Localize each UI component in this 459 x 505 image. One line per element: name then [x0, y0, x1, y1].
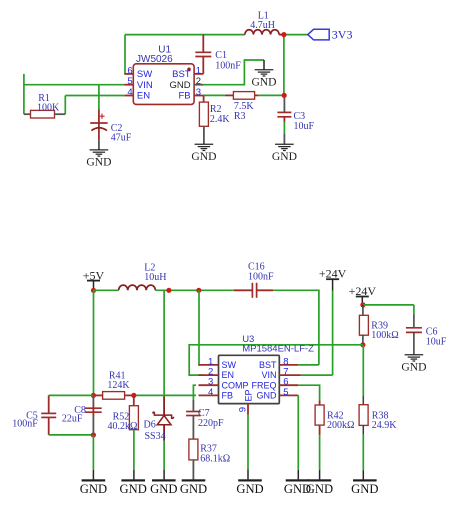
svg-text:40.2kΩ: 40.2kΩ	[108, 421, 138, 432]
svg-text:VIN: VIN	[261, 370, 276, 380]
svg-text:200kΩ: 200kΩ	[327, 420, 354, 431]
svg-text:GND: GND	[284, 482, 311, 496]
svg-text:SW: SW	[137, 69, 152, 80]
svg-text:GND: GND	[80, 482, 107, 496]
svg-text:R3: R3	[234, 111, 246, 122]
svg-text:C1: C1	[215, 50, 227, 61]
svg-text:3V3: 3V3	[332, 28, 353, 42]
svg-text:100nF: 100nF	[12, 418, 38, 429]
svg-text:GND: GND	[236, 482, 263, 496]
svg-text:2: 2	[196, 76, 201, 87]
svg-text:GND: GND	[191, 150, 216, 163]
svg-text:4: 4	[208, 387, 213, 398]
svg-text:EN: EN	[137, 91, 150, 102]
svg-text:9: 9	[237, 407, 248, 412]
svg-text:FB: FB	[222, 391, 234, 401]
svg-text:D6: D6	[144, 420, 156, 431]
svg-text:10uF: 10uF	[426, 337, 447, 348]
svg-text:GND: GND	[86, 156, 111, 169]
svg-text:3: 3	[196, 87, 201, 98]
svg-text:JW5026: JW5026	[136, 54, 173, 65]
svg-text:124K: 124K	[107, 380, 130, 391]
svg-text:GND: GND	[169, 80, 190, 91]
svg-text:10uH: 10uH	[144, 272, 166, 283]
svg-text:GND: GND	[180, 482, 207, 496]
svg-text:SS34: SS34	[145, 431, 166, 442]
svg-text:4.7uH: 4.7uH	[250, 20, 275, 31]
svg-text:6: 6	[127, 65, 132, 76]
svg-text:100nF: 100nF	[248, 271, 274, 282]
svg-text:GND: GND	[272, 150, 297, 163]
svg-text:MP1584EN-LF-Z: MP1584EN-LF-Z	[242, 343, 314, 354]
svg-text:68.1kΩ: 68.1kΩ	[200, 453, 230, 464]
svg-text:GND: GND	[150, 482, 177, 496]
svg-text:47uF: 47uF	[111, 133, 132, 144]
svg-text:BST: BST	[259, 360, 277, 370]
svg-text:EP: EP	[244, 389, 254, 401]
svg-text:SW: SW	[222, 360, 237, 370]
svg-text:10uF: 10uF	[294, 121, 315, 132]
svg-text:GND: GND	[401, 361, 426, 374]
svg-text:220pF: 220pF	[198, 418, 224, 429]
svg-text:100K: 100K	[37, 103, 60, 114]
svg-text:FREQ: FREQ	[251, 380, 276, 390]
svg-text:1: 1	[196, 65, 201, 76]
svg-text:100kΩ: 100kΩ	[371, 330, 398, 341]
svg-text:GND: GND	[120, 482, 147, 496]
svg-text:GND: GND	[257, 391, 278, 401]
svg-text:GND: GND	[251, 76, 276, 89]
svg-text:EN: EN	[222, 370, 235, 380]
svg-text:22uF: 22uF	[62, 414, 83, 425]
svg-text:100nF: 100nF	[215, 60, 241, 71]
svg-text:4: 4	[127, 87, 132, 98]
svg-text:VIN: VIN	[137, 80, 153, 91]
svg-text:24.9K: 24.9K	[372, 420, 398, 431]
svg-text:5: 5	[127, 76, 132, 87]
svg-text:5: 5	[283, 387, 288, 398]
svg-text:2.4K: 2.4K	[210, 114, 231, 125]
svg-text:BST: BST	[172, 69, 191, 80]
svg-text:FB: FB	[178, 91, 190, 102]
svg-text:COMP: COMP	[222, 380, 249, 390]
svg-text:GND: GND	[351, 482, 378, 496]
